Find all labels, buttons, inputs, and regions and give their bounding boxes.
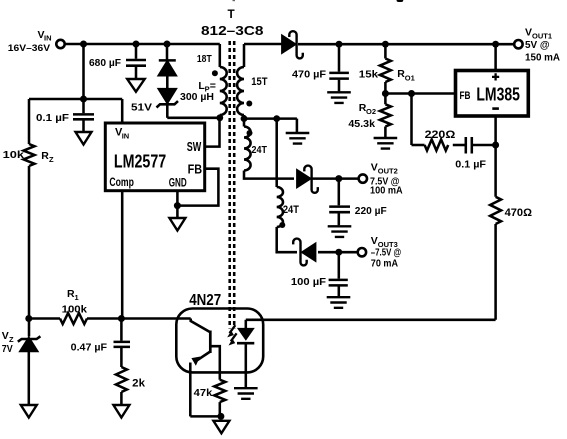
svg-text:680 µF: 680 µF bbox=[89, 57, 122, 69]
svg-text:47k: 47k bbox=[194, 387, 213, 399]
svg-text:5V @: 5V @ bbox=[525, 39, 550, 51]
svg-text:10k: 10k bbox=[3, 149, 25, 161]
svg-text:SW: SW bbox=[187, 139, 202, 154]
svg-text:–7.5V @: –7.5V @ bbox=[371, 246, 401, 258]
svg-text:24T: 24T bbox=[252, 144, 268, 156]
svg-text:300 µH: 300 µH bbox=[180, 91, 214, 103]
svg-text:18T: 18T bbox=[197, 54, 212, 65]
svg-text:812–3C8: 812–3C8 bbox=[201, 23, 264, 38]
svg-text:150 mA: 150 mA bbox=[525, 52, 560, 64]
svg-text:V: V bbox=[525, 26, 532, 38]
svg-text:FB: FB bbox=[188, 161, 203, 176]
svg-text:OUT2: OUT2 bbox=[378, 167, 398, 176]
svg-text:470Ω: 470Ω bbox=[505, 207, 533, 219]
svg-text:45.3k: 45.3k bbox=[348, 118, 375, 130]
svg-text:V: V bbox=[2, 330, 9, 342]
svg-text:IN: IN bbox=[122, 131, 130, 140]
svg-text:O1: O1 bbox=[405, 74, 415, 83]
svg-text:2k: 2k bbox=[132, 378, 146, 390]
svg-text:T: T bbox=[228, 8, 236, 21]
svg-text:1: 1 bbox=[75, 293, 79, 302]
svg-text:100k: 100k bbox=[62, 303, 88, 315]
svg-text:LM385: LM385 bbox=[476, 84, 520, 104]
svg-text:51V: 51V bbox=[131, 101, 152, 113]
svg-text:16V–36V: 16V–36V bbox=[8, 43, 51, 54]
svg-text:O2: O2 bbox=[366, 107, 376, 116]
svg-text:Comp: Comp bbox=[109, 177, 133, 189]
svg-text:IN: IN bbox=[44, 34, 52, 43]
svg-text:15T: 15T bbox=[251, 76, 267, 88]
svg-text:FB: FB bbox=[460, 90, 471, 102]
svg-text:LM2577: LM2577 bbox=[114, 152, 166, 172]
svg-text:100 mA: 100 mA bbox=[370, 185, 403, 197]
svg-text:GND: GND bbox=[169, 176, 187, 190]
svg-text:100 µF: 100 µF bbox=[291, 276, 327, 288]
svg-text:70 mA: 70 mA bbox=[371, 258, 399, 270]
svg-text:0.1 µF: 0.1 µF bbox=[455, 159, 486, 171]
svg-text:470 µF: 470 µF bbox=[292, 68, 327, 80]
svg-text:Z: Z bbox=[49, 155, 54, 164]
svg-text:220 µF: 220 µF bbox=[355, 205, 387, 217]
svg-text:4N27: 4N27 bbox=[189, 292, 221, 309]
svg-text:7V: 7V bbox=[2, 343, 13, 355]
svg-text:0.47 µF: 0.47 µF bbox=[71, 341, 108, 353]
svg-text:V: V bbox=[371, 162, 378, 174]
svg-text:0.1 µF: 0.1 µF bbox=[36, 112, 70, 124]
svg-text:24T: 24T bbox=[283, 204, 299, 216]
svg-text:15k: 15k bbox=[359, 68, 378, 80]
svg-text:220Ω: 220Ω bbox=[425, 129, 456, 141]
